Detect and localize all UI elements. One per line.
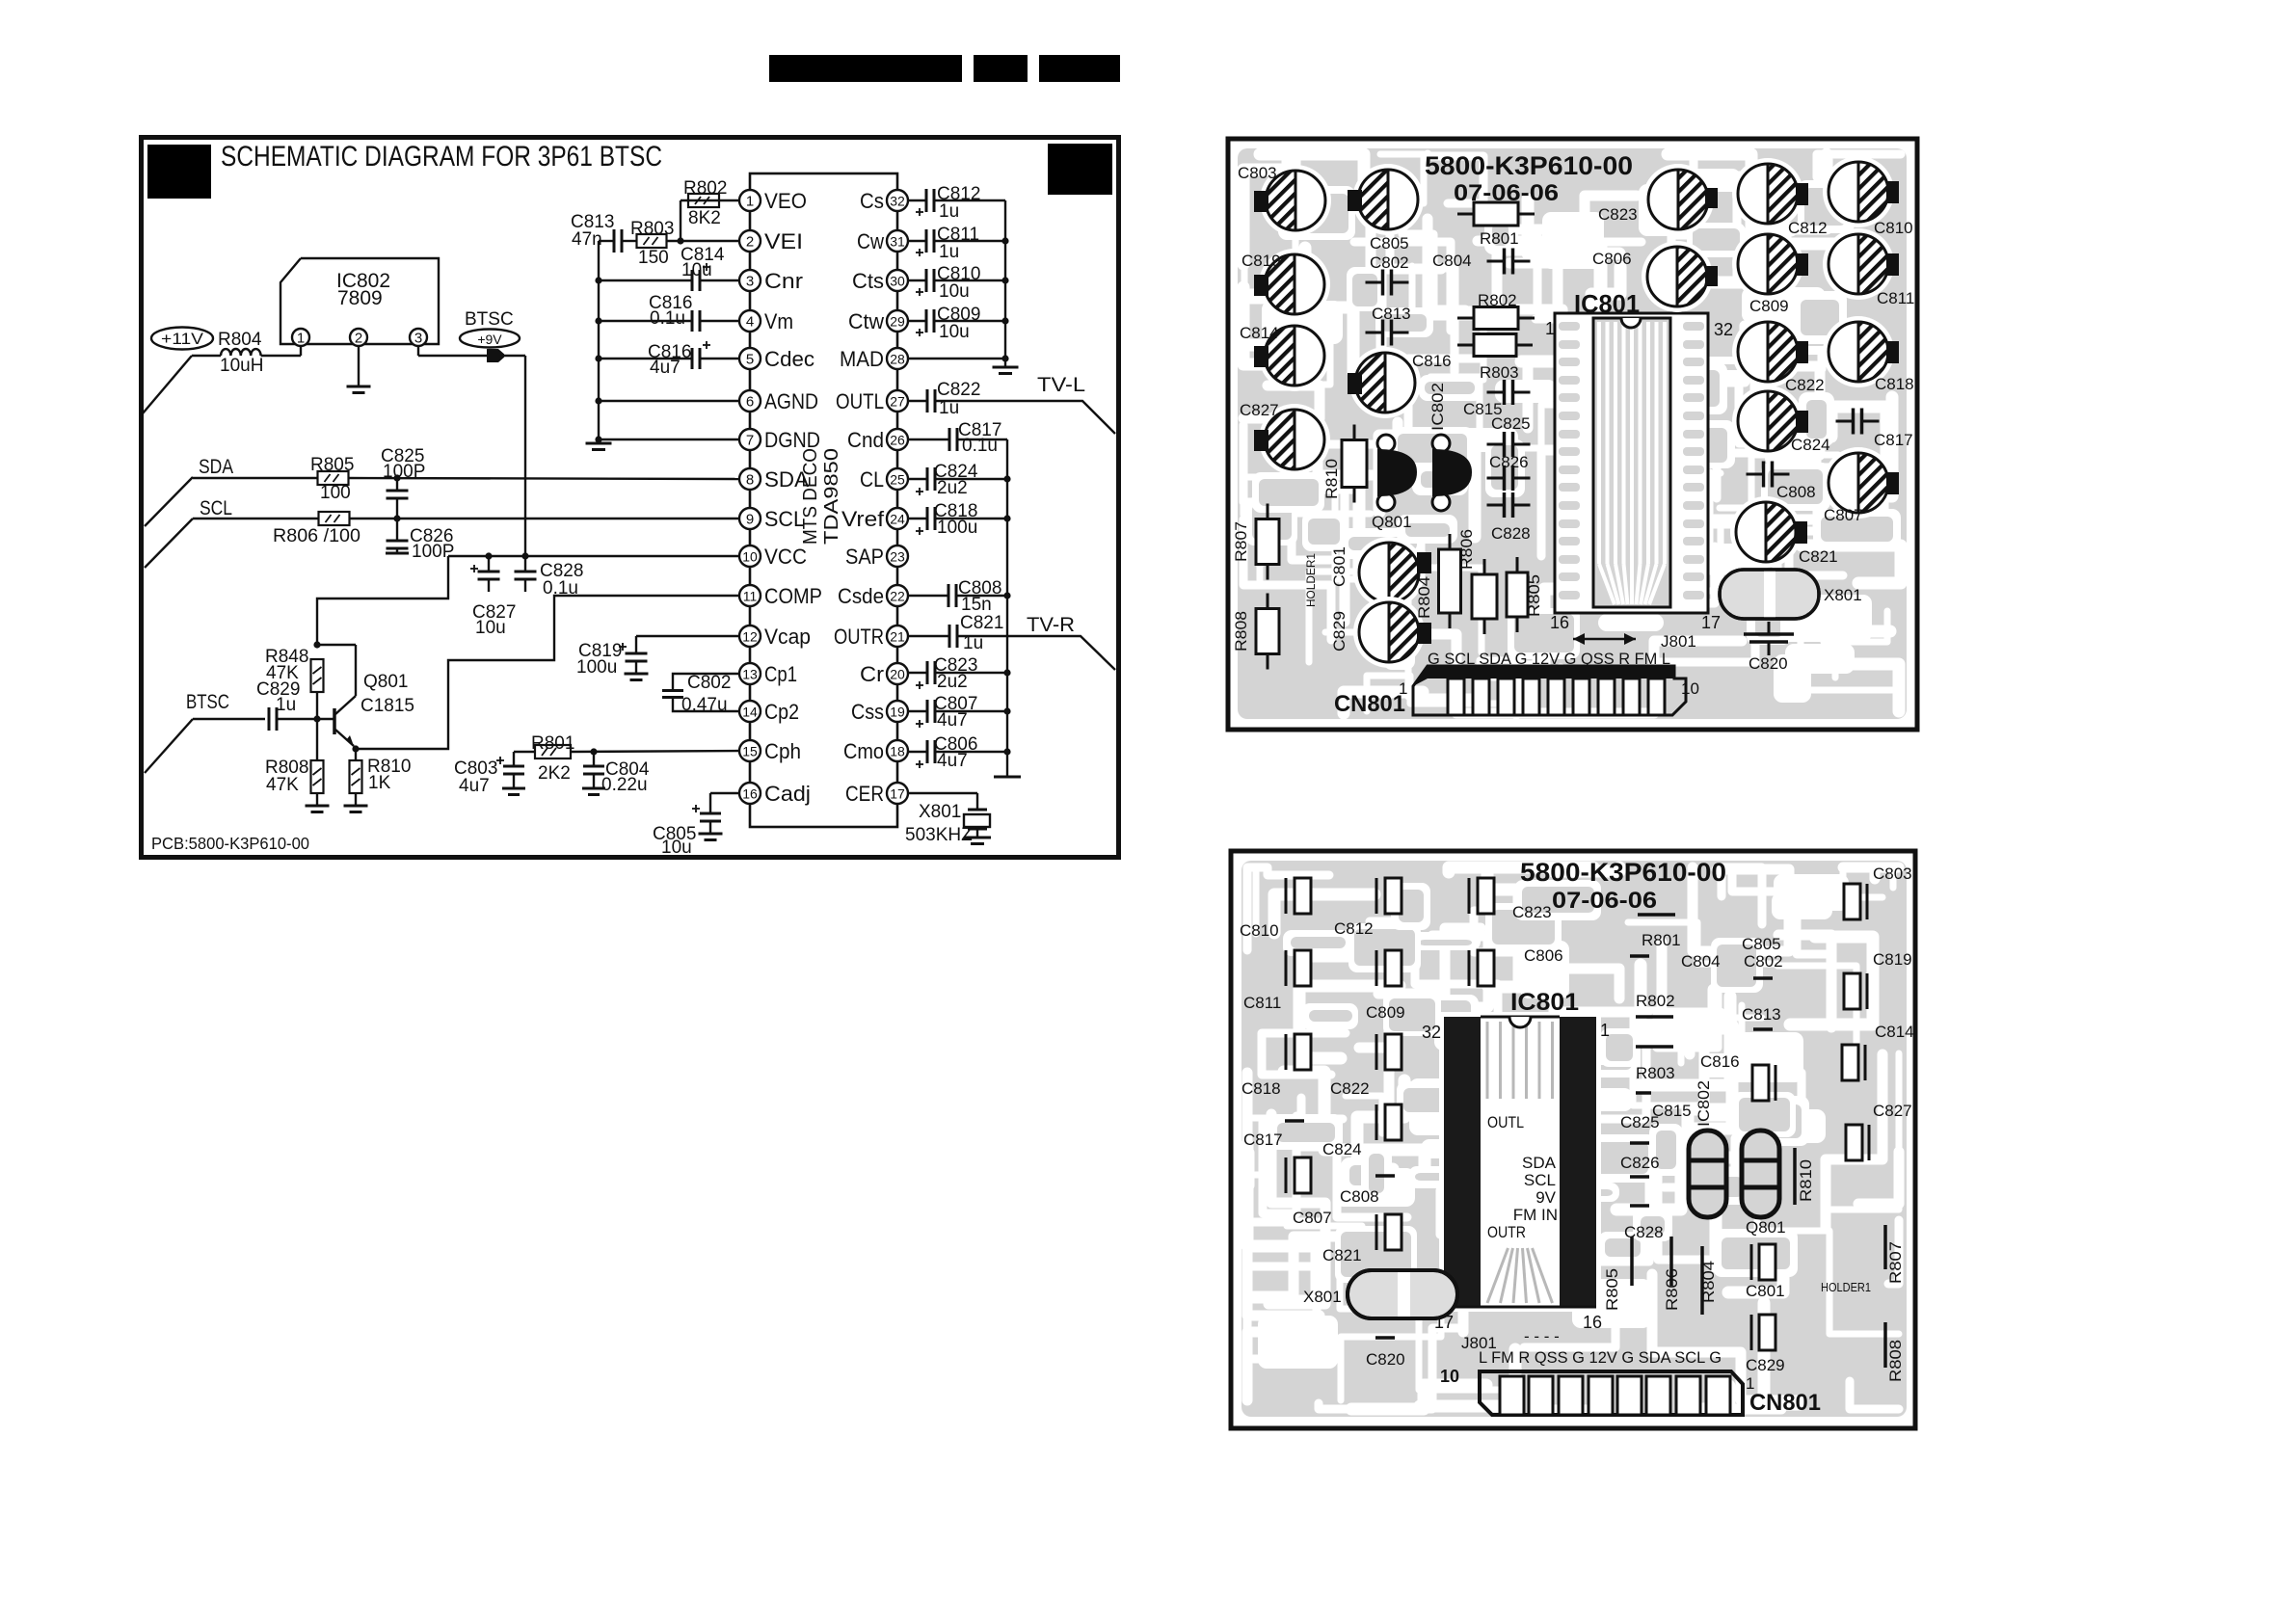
svg-text:C808: C808 xyxy=(1340,1187,1379,1206)
svg-text:0.47u: 0.47u xyxy=(681,695,728,715)
svg-text:R806 /100: R806 /100 xyxy=(273,526,360,546)
svg-text:R804: R804 xyxy=(1699,1261,1718,1303)
svg-text:1u: 1u xyxy=(939,201,959,222)
svg-text:2u2: 2u2 xyxy=(937,478,968,498)
svg-text:+11V: +11V xyxy=(161,330,204,348)
svg-text:5800-K3P610-00: 5800-K3P610-00 xyxy=(1520,858,1726,887)
svg-text:C802: C802 xyxy=(1744,952,1783,971)
svg-text:C825: C825 xyxy=(1491,414,1531,433)
svg-text:27: 27 xyxy=(890,394,905,410)
svg-text:15n: 15n xyxy=(961,595,992,615)
svg-text:30: 30 xyxy=(890,274,905,289)
svg-text:C820: C820 xyxy=(1749,654,1788,673)
svg-text:COMP: COMP xyxy=(764,584,822,608)
svg-text:DGND: DGND xyxy=(764,428,820,452)
svg-text:C821: C821 xyxy=(960,613,1003,633)
svg-text:0.22u: 0.22u xyxy=(601,775,648,795)
svg-text:0.1u: 0.1u xyxy=(962,436,998,456)
svg-text:3: 3 xyxy=(414,331,422,347)
svg-text:C821: C821 xyxy=(1799,547,1838,566)
svg-text:21: 21 xyxy=(890,629,905,645)
svg-text:C821: C821 xyxy=(1322,1246,1362,1264)
svg-text:VEI: VEI xyxy=(764,229,803,253)
svg-text:R803: R803 xyxy=(1480,363,1519,382)
svg-text:C813: C813 xyxy=(1742,1005,1781,1024)
svg-text:R806: R806 xyxy=(1457,529,1476,570)
svg-text:Cdec: Cdec xyxy=(764,347,814,371)
svg-text:SCL: SCL xyxy=(200,497,232,519)
svg-text:C811: C811 xyxy=(1243,994,1281,1012)
svg-text:IC801: IC801 xyxy=(1510,989,1579,1016)
svg-text:22: 22 xyxy=(890,589,905,604)
svg-text:5: 5 xyxy=(746,352,754,368)
svg-text:10u: 10u xyxy=(939,281,970,302)
svg-text:C804: C804 xyxy=(1432,252,1472,270)
svg-text:C806: C806 xyxy=(1524,946,1563,965)
svg-text:Css: Css xyxy=(851,700,884,724)
svg-text:SDA: SDA xyxy=(764,467,809,492)
svg-text:C829: C829 xyxy=(1746,1356,1785,1374)
svg-text:R808: R808 xyxy=(1886,1340,1905,1382)
svg-text:23: 23 xyxy=(890,549,905,565)
svg-text:+9V: +9V xyxy=(477,332,502,347)
svg-text:15: 15 xyxy=(742,744,758,759)
svg-text:8: 8 xyxy=(746,472,754,489)
svg-text:10u: 10u xyxy=(939,322,970,342)
svg-text:19: 19 xyxy=(890,705,905,720)
svg-text:C826: C826 xyxy=(1620,1154,1660,1172)
svg-text:16: 16 xyxy=(1583,1313,1602,1332)
svg-text:17: 17 xyxy=(1701,613,1721,632)
svg-text:C809: C809 xyxy=(1749,297,1789,315)
svg-text:HOLDER1: HOLDER1 xyxy=(1304,553,1318,607)
svg-text:32: 32 xyxy=(890,194,905,209)
svg-text:TV-R: TV-R xyxy=(1027,614,1075,636)
svg-text:FM IN: FM IN xyxy=(1513,1206,1558,1224)
svg-text:100: 100 xyxy=(320,483,351,503)
svg-text:29: 29 xyxy=(890,314,905,330)
svg-text:16: 16 xyxy=(1550,613,1569,632)
svg-text:07-06-06: 07-06-06 xyxy=(1454,180,1559,206)
svg-text:Cts: Cts xyxy=(852,269,884,293)
svg-text:C819: C819 xyxy=(1241,252,1281,270)
svg-text:R810: R810 xyxy=(1322,459,1341,499)
svg-text:CER: CER xyxy=(845,782,884,806)
svg-text:10: 10 xyxy=(742,549,758,565)
svg-text:C805: C805 xyxy=(1742,935,1781,953)
svg-text:IC802: IC802 xyxy=(1695,1080,1713,1127)
svg-text:6: 6 xyxy=(746,394,754,411)
svg-text:1u: 1u xyxy=(963,633,983,653)
svg-text:Vm: Vm xyxy=(764,309,793,333)
svg-text:C807: C807 xyxy=(1293,1209,1332,1227)
svg-text:R805: R805 xyxy=(1525,574,1543,617)
svg-text:R801: R801 xyxy=(531,733,574,754)
svg-text:24: 24 xyxy=(890,512,905,527)
svg-text:1u: 1u xyxy=(939,398,959,418)
svg-text:R803: R803 xyxy=(630,219,674,239)
svg-text:17: 17 xyxy=(890,786,905,802)
svg-text:MAD: MAD xyxy=(840,347,884,371)
svg-text:C801: C801 xyxy=(1330,546,1348,587)
svg-text:C824: C824 xyxy=(1791,436,1830,454)
svg-text:20: 20 xyxy=(890,667,905,682)
svg-text:1: 1 xyxy=(1545,319,1555,338)
svg-text:C822: C822 xyxy=(937,380,980,400)
svg-text:CN801: CN801 xyxy=(1334,691,1405,717)
svg-text:C827: C827 xyxy=(1240,401,1279,419)
svg-text:HOLDER1: HOLDER1 xyxy=(1821,1280,1871,1294)
svg-text:C802: C802 xyxy=(687,673,731,693)
svg-text:BTSC: BTSC xyxy=(186,691,229,713)
svg-text:47K: 47K xyxy=(266,775,299,795)
svg-text:26: 26 xyxy=(890,433,905,448)
svg-text:10: 10 xyxy=(1681,679,1699,698)
svg-text:C802: C802 xyxy=(1370,253,1409,272)
svg-text:28: 28 xyxy=(890,352,905,367)
svg-text:IC801: IC801 xyxy=(1574,289,1640,318)
svg-text:PCB:5800-K3P610-00: PCB:5800-K3P610-00 xyxy=(151,834,309,853)
svg-text:R802: R802 xyxy=(1478,291,1517,309)
svg-text:Cs: Cs xyxy=(860,189,884,213)
svg-text:1: 1 xyxy=(1600,1021,1610,1040)
svg-text:Vcap: Vcap xyxy=(764,625,811,649)
svg-text:C817: C817 xyxy=(1243,1131,1283,1149)
svg-text:J801: J801 xyxy=(1661,632,1696,651)
svg-text:L FM R QSS G 12V G SDA SCL G: L FM R QSS G 12V G SDA SCL G xyxy=(1479,1348,1722,1367)
svg-text:2: 2 xyxy=(746,234,754,251)
svg-text:R810: R810 xyxy=(1797,1159,1815,1202)
svg-text:Vref: Vref xyxy=(841,507,885,531)
svg-text:C807: C807 xyxy=(1824,506,1863,524)
svg-text:C806: C806 xyxy=(1592,250,1632,268)
svg-text:11: 11 xyxy=(743,589,758,604)
svg-text:R807: R807 xyxy=(1232,521,1250,562)
svg-text:X801: X801 xyxy=(1824,586,1862,604)
svg-text:SCL: SCL xyxy=(764,507,805,531)
svg-text:100P: 100P xyxy=(383,462,425,482)
svg-text:Cph: Cph xyxy=(764,739,801,763)
svg-text:14: 14 xyxy=(742,705,758,720)
svg-text:VEO: VEO xyxy=(764,189,807,213)
svg-text:C819: C819 xyxy=(1873,950,1912,969)
svg-text:R806: R806 xyxy=(1663,1268,1681,1311)
svg-text:1: 1 xyxy=(746,194,754,210)
svg-text:C803: C803 xyxy=(1238,164,1277,182)
svg-text:OUTL: OUTL xyxy=(1487,1113,1524,1131)
svg-text:C816: C816 xyxy=(1412,352,1452,370)
svg-text:1: 1 xyxy=(297,331,305,347)
svg-text:12: 12 xyxy=(742,629,758,645)
svg-text:C824: C824 xyxy=(1322,1140,1362,1158)
svg-text:C812: C812 xyxy=(1788,219,1828,237)
svg-text:C828: C828 xyxy=(1624,1223,1664,1241)
svg-text:TDA9850: TDA9850 xyxy=(821,448,842,545)
svg-text:100u: 100u xyxy=(937,518,977,538)
svg-text:C820: C820 xyxy=(1366,1350,1405,1369)
svg-text:VCC: VCC xyxy=(764,545,807,569)
svg-text:Ctw: Ctw xyxy=(848,309,884,333)
svg-text:1u: 1u xyxy=(276,695,296,715)
svg-text:9: 9 xyxy=(746,512,754,528)
svg-text:Cadj: Cadj xyxy=(764,782,811,806)
svg-text:R802: R802 xyxy=(1636,992,1675,1010)
svg-text:OUTL: OUTL xyxy=(836,389,884,413)
svg-text:TV-L: TV-L xyxy=(1037,374,1085,396)
svg-text:C829: C829 xyxy=(1330,611,1348,652)
svg-text:Cw: Cw xyxy=(857,229,884,253)
svg-text:C813: C813 xyxy=(1372,305,1411,323)
svg-text:C812: C812 xyxy=(1334,919,1374,938)
svg-text:Cnr: Cnr xyxy=(764,269,803,293)
svg-text:CN801: CN801 xyxy=(1749,1390,1821,1416)
svg-text:9V: 9V xyxy=(1535,1188,1556,1207)
svg-text:SCL: SCL xyxy=(1524,1171,1556,1189)
svg-text:4u7: 4u7 xyxy=(459,776,490,796)
svg-text:R804: R804 xyxy=(1415,576,1433,619)
svg-text:R805: R805 xyxy=(310,455,354,475)
svg-text:X801: X801 xyxy=(919,802,961,822)
svg-text:R801: R801 xyxy=(1480,229,1519,248)
svg-text:C814: C814 xyxy=(1875,1023,1914,1041)
svg-text:C811: C811 xyxy=(1877,289,1914,307)
svg-text:10uH: 10uH xyxy=(220,356,263,376)
svg-text:C822: C822 xyxy=(1330,1079,1370,1098)
svg-text:R803: R803 xyxy=(1636,1064,1675,1082)
svg-text:Cnd: Cnd xyxy=(847,428,884,452)
svg-text:1u: 1u xyxy=(939,242,959,262)
svg-text:Cmo: Cmo xyxy=(843,739,884,763)
svg-text:C809: C809 xyxy=(1366,1003,1405,1022)
svg-text:4: 4 xyxy=(746,314,754,331)
svg-text:Q801: Q801 xyxy=(1746,1218,1786,1237)
svg-text:32: 32 xyxy=(1714,320,1733,339)
svg-text:SAP: SAP xyxy=(845,545,884,569)
svg-text:C817: C817 xyxy=(1874,431,1913,449)
svg-text:C1815: C1815 xyxy=(360,696,414,716)
svg-text:C810: C810 xyxy=(1874,219,1913,237)
svg-text:OUTR: OUTR xyxy=(1487,1223,1526,1241)
svg-text:Cp1: Cp1 xyxy=(764,662,797,686)
svg-text:C808: C808 xyxy=(1776,483,1816,501)
svg-text:2K2: 2K2 xyxy=(538,763,571,784)
svg-text:07-06-06: 07-06-06 xyxy=(1552,888,1657,914)
svg-text:C822: C822 xyxy=(1785,376,1825,394)
svg-text:2: 2 xyxy=(355,331,362,347)
svg-text:5800-K3P610-00: 5800-K3P610-00 xyxy=(1425,151,1633,180)
svg-text:C814: C814 xyxy=(1240,324,1279,342)
svg-text:R804: R804 xyxy=(218,330,262,350)
svg-text:C828: C828 xyxy=(1491,524,1531,543)
svg-text:C801: C801 xyxy=(1746,1282,1785,1300)
svg-text:1K: 1K xyxy=(368,773,391,793)
svg-text:C825: C825 xyxy=(1620,1113,1660,1131)
svg-text:C804: C804 xyxy=(1681,952,1721,971)
svg-text:OUTR: OUTR xyxy=(834,625,884,649)
svg-text:503KHZ: 503KHZ xyxy=(905,825,973,845)
svg-text:Q801: Q801 xyxy=(1372,513,1412,531)
svg-text:25: 25 xyxy=(890,472,905,488)
svg-text:C818: C818 xyxy=(1875,375,1914,393)
svg-text:C803: C803 xyxy=(1873,865,1912,883)
svg-text:C826: C826 xyxy=(1489,453,1529,471)
svg-text:C823: C823 xyxy=(1512,903,1552,921)
svg-text:C827: C827 xyxy=(1873,1102,1912,1120)
svg-text:Cr: Cr xyxy=(860,662,884,686)
svg-text:Q801: Q801 xyxy=(363,672,408,692)
svg-text:18: 18 xyxy=(890,744,905,759)
svg-text:AGND: AGND xyxy=(764,389,818,413)
svg-text:R807: R807 xyxy=(1886,1241,1905,1284)
svg-text:2u2: 2u2 xyxy=(937,672,968,692)
svg-text:4u7: 4u7 xyxy=(650,358,681,378)
svg-text:R801: R801 xyxy=(1642,931,1681,949)
svg-text:150: 150 xyxy=(638,248,669,268)
svg-text:BTSC: BTSC xyxy=(465,309,514,330)
svg-text:31: 31 xyxy=(890,234,905,250)
svg-text:SDA: SDA xyxy=(199,456,233,478)
svg-text:Csde: Csde xyxy=(838,584,884,608)
svg-text:4u7: 4u7 xyxy=(937,751,968,771)
svg-text:C810: C810 xyxy=(1240,921,1279,940)
svg-text:Cp2: Cp2 xyxy=(764,700,799,724)
svg-text:IC802: IC802 xyxy=(1428,383,1447,431)
svg-text:47n: 47n xyxy=(572,229,602,250)
svg-text:X801: X801 xyxy=(1303,1288,1342,1306)
svg-text:3: 3 xyxy=(746,274,754,290)
svg-text:10u: 10u xyxy=(681,260,712,280)
svg-text:10u: 10u xyxy=(661,838,692,858)
svg-text:- - - -: - - - - xyxy=(1524,1327,1560,1345)
svg-text:SCHEMATIC DIAGRAM FOR 3P61 BTS: SCHEMATIC DIAGRAM FOR 3P61 BTSC xyxy=(221,141,662,173)
svg-text:32: 32 xyxy=(1422,1023,1441,1042)
svg-text:C816: C816 xyxy=(1700,1052,1740,1071)
svg-text:16: 16 xyxy=(742,786,758,802)
svg-text:4u7: 4u7 xyxy=(937,710,968,731)
svg-text:C818: C818 xyxy=(1241,1079,1281,1098)
svg-text:100u: 100u xyxy=(576,657,617,678)
svg-text:R808: R808 xyxy=(1232,611,1250,652)
svg-text:0.1u: 0.1u xyxy=(650,308,685,329)
svg-text:R802: R802 xyxy=(683,178,727,199)
svg-text:10: 10 xyxy=(1440,1367,1459,1386)
svg-text:CL: CL xyxy=(860,467,884,492)
svg-text:7809: 7809 xyxy=(337,287,383,309)
svg-text:C823: C823 xyxy=(1598,205,1638,224)
svg-text:C805: C805 xyxy=(1370,234,1409,253)
svg-text:R805: R805 xyxy=(1603,1268,1621,1311)
svg-text:7: 7 xyxy=(746,433,754,449)
svg-text:10u: 10u xyxy=(475,618,506,638)
svg-text:13: 13 xyxy=(742,667,758,682)
svg-text:8K2: 8K2 xyxy=(688,208,721,228)
svg-text:SDA: SDA xyxy=(1522,1154,1557,1172)
